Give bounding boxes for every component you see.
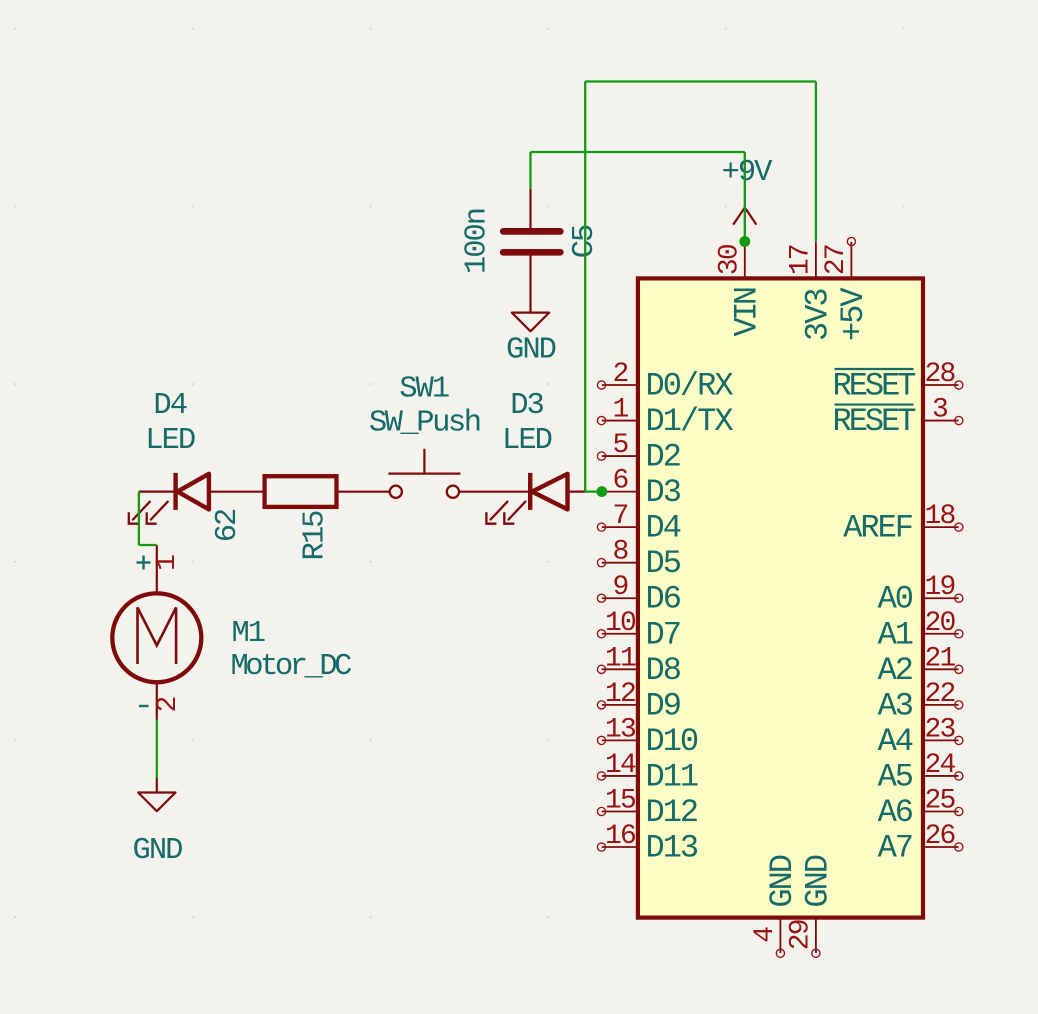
- svg-text:D10: D10: [646, 723, 698, 760]
- svg-text:27: 27: [821, 245, 852, 275]
- svg-text:D0/RX: D0/RX: [646, 368, 734, 405]
- svg-text:D4: D4: [646, 510, 681, 547]
- svg-text:20: 20: [924, 608, 955, 639]
- svg-text:11: 11: [605, 643, 636, 674]
- svg-text:3V3: 3V3: [799, 289, 836, 341]
- svg-text:A7: A7: [878, 830, 912, 867]
- svg-text:62: 62: [211, 509, 245, 542]
- svg-text:LED: LED: [145, 424, 195, 458]
- svg-text:LED: LED: [502, 424, 552, 458]
- svg-text:A0: A0: [878, 581, 913, 618]
- svg-text:D7: D7: [646, 616, 680, 653]
- svg-text:D11: D11: [646, 758, 698, 795]
- svg-text:2: 2: [153, 697, 184, 712]
- svg-text:14: 14: [605, 750, 636, 781]
- svg-text:D6: D6: [646, 581, 681, 618]
- svg-text:6: 6: [612, 466, 627, 497]
- svg-text:24: 24: [924, 750, 955, 781]
- svg-text:15: 15: [605, 785, 636, 816]
- svg-text:+9V: +9V: [722, 156, 774, 190]
- svg-text:D8: D8: [646, 652, 681, 689]
- svg-text:AREF: AREF: [843, 510, 912, 547]
- svg-text:GND: GND: [133, 834, 183, 868]
- svg-text:21: 21: [924, 643, 955, 674]
- svg-text:12: 12: [605, 679, 635, 710]
- svg-text:18: 18: [924, 501, 954, 532]
- svg-text:2: 2: [612, 359, 627, 390]
- svg-text:30: 30: [714, 244, 745, 275]
- svg-text:SW1: SW1: [399, 373, 449, 407]
- svg-text:GND: GND: [764, 855, 801, 907]
- svg-text:25: 25: [924, 785, 955, 816]
- svg-text:D3: D3: [646, 474, 681, 511]
- svg-text:D4: D4: [153, 389, 186, 423]
- svg-text:1: 1: [152, 555, 183, 571]
- svg-text:D3: D3: [510, 389, 543, 423]
- svg-text:8: 8: [612, 537, 627, 568]
- svg-text:D13: D13: [646, 830, 698, 867]
- svg-text:29: 29: [785, 920, 816, 950]
- svg-text:19: 19: [924, 572, 954, 603]
- svg-text:A5: A5: [878, 758, 913, 795]
- svg-text:3: 3: [932, 395, 948, 426]
- svg-text:4: 4: [750, 927, 781, 943]
- svg-text:A2: A2: [878, 652, 912, 689]
- svg-text:SW_Push: SW_Push: [369, 407, 480, 441]
- svg-text:A1: A1: [878, 616, 913, 653]
- svg-text:Motor_DC: Motor_DC: [231, 650, 352, 684]
- svg-text:1: 1: [612, 395, 628, 426]
- svg-text:A6: A6: [878, 794, 913, 831]
- svg-text:16: 16: [605, 821, 635, 852]
- svg-text:GND: GND: [506, 334, 556, 368]
- svg-text:26: 26: [924, 821, 954, 852]
- svg-text:+5V: +5V: [835, 287, 872, 341]
- svg-text:R15: R15: [298, 511, 332, 561]
- svg-text:17: 17: [785, 245, 816, 275]
- svg-text:D12: D12: [646, 794, 698, 831]
- svg-text:A4: A4: [878, 723, 913, 760]
- svg-text:GND: GND: [799, 855, 836, 907]
- svg-text:28: 28: [924, 359, 954, 390]
- svg-text:7: 7: [612, 501, 627, 532]
- svg-text:10: 10: [605, 608, 636, 639]
- svg-text:D9: D9: [646, 687, 680, 724]
- svg-text:VIN: VIN: [728, 288, 765, 336]
- svg-text:RESET: RESET: [832, 368, 915, 405]
- svg-text:M1: M1: [232, 617, 265, 651]
- svg-text:9: 9: [612, 572, 627, 603]
- svg-text:RESET: RESET: [832, 403, 915, 440]
- svg-text:5: 5: [612, 430, 628, 461]
- svg-text:D5: D5: [646, 545, 681, 582]
- svg-text:D1/TX: D1/TX: [646, 403, 734, 440]
- svg-text:D2: D2: [646, 439, 680, 476]
- svg-text:A3: A3: [878, 687, 913, 724]
- svg-text:13: 13: [605, 714, 636, 745]
- svg-text:22: 22: [924, 679, 954, 710]
- svg-text:100n: 100n: [460, 209, 494, 274]
- svg-text:23: 23: [924, 714, 955, 745]
